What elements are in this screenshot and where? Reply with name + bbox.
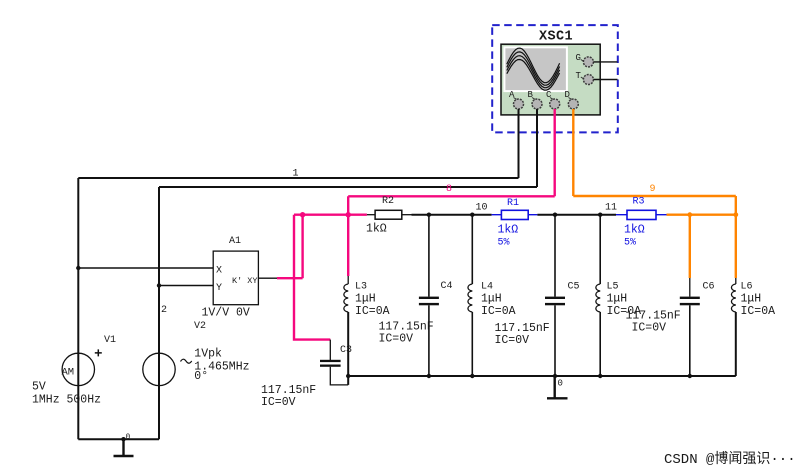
oscilloscope terminal T stub wire <box>593 79 617 81</box>
source V1 <box>62 353 94 385</box>
wire source bottom horizontal <box>78 438 159 440</box>
wire node9 orange horizontal top <box>573 195 736 197</box>
oscilloscope terminal C <box>550 99 560 109</box>
svg-text:11: 11 <box>605 203 617 214</box>
oscilloscope waveform trace 1 <box>507 48 560 83</box>
svg-text:X: X <box>216 265 222 276</box>
svg-text:C6: C6 <box>703 282 715 293</box>
inductor L4 top lead <box>471 215 473 284</box>
wire ground bus <box>348 375 736 377</box>
inductor L5 top lead <box>599 215 601 284</box>
wire net 1 horizontal to V1 <box>78 177 518 179</box>
resistor R1 <box>501 210 528 219</box>
capacitor C4 <box>419 297 439 299</box>
inductor L6 bottom lead <box>735 312 737 376</box>
junction node8 riser <box>300 212 305 217</box>
wire scope A vertical <box>518 109 520 178</box>
capacitor C6 <box>680 297 700 299</box>
wire scope B vertical <box>536 109 538 187</box>
svg-text:IC=0A: IC=0A <box>741 305 776 318</box>
svg-text:IC=0V: IC=0V <box>632 322 667 335</box>
capacitor C5 bottom lead <box>554 305 556 376</box>
junction node10 C4 <box>427 213 431 217</box>
svg-text:5%: 5% <box>498 238 510 249</box>
svg-text:R3: R3 <box>633 197 645 208</box>
svg-text:IC=0V: IC=0V <box>495 334 530 347</box>
inductor L4 <box>468 284 472 312</box>
junction bus C5 <box>553 374 557 378</box>
inductor L5 bottom lead <box>599 312 601 376</box>
svg-text:IC=0A: IC=0A <box>355 305 390 318</box>
junction node9 C6 <box>687 212 692 217</box>
capacitor C5 top lead <box>554 215 556 297</box>
oscilloscope waveform trace 3 <box>507 56 560 88</box>
svg-text:1: 1 <box>293 169 299 180</box>
svg-text:1kΩ: 1kΩ <box>498 223 519 236</box>
oscilloscope waveform trace 2 <box>507 52 560 85</box>
capacitor C3 <box>320 360 341 362</box>
svg-text:A: A <box>509 90 515 100</box>
resistor R3 right lead blue <box>656 214 667 216</box>
svg-text:C3: C3 <box>340 345 352 356</box>
inductor L5 <box>596 284 600 312</box>
resistor R1 left lead blue <box>492 214 502 216</box>
svg-text:1kΩ: 1kΩ <box>624 223 645 236</box>
wire Y branch <box>159 285 213 287</box>
svg-text:L5: L5 <box>607 282 619 293</box>
wire node9 orange C6 branch <box>689 215 691 278</box>
junction bus L3 <box>346 374 350 378</box>
junction node11 C5 <box>553 213 557 217</box>
junction V1-X <box>76 266 80 270</box>
svg-text:9: 9 <box>650 184 656 195</box>
oscilloscope terminal D <box>568 99 578 109</box>
resistor R2 <box>375 210 402 219</box>
svg-text:IC=0V: IC=0V <box>261 396 296 409</box>
svg-text:1Vpk: 1Vpk <box>194 348 222 361</box>
source V2 <box>143 353 175 385</box>
svg-text:V2: V2 <box>194 321 206 332</box>
oscilloscope waveform trace 4 <box>507 60 560 91</box>
resistor R1 right lead blue <box>528 214 537 216</box>
svg-text:1μH: 1μH <box>481 293 502 306</box>
svg-text:IC=0A: IC=0A <box>481 305 516 318</box>
capacitor C6 top lead <box>689 278 691 297</box>
resistor R2 right lead <box>402 214 412 216</box>
svg-text:R2: R2 <box>382 196 394 207</box>
inductor L6 top lead <box>735 278 737 284</box>
svg-text:1V/V 0V: 1V/V 0V <box>202 307 250 320</box>
svg-text:5V: 5V <box>32 381 46 394</box>
svg-text:2: 2 <box>161 305 167 316</box>
source V2 tilde <box>181 359 192 363</box>
svg-text:1μH: 1μH <box>355 293 376 306</box>
junction bus L4 <box>470 374 474 378</box>
svg-text:0°: 0° <box>194 370 208 383</box>
wire node8 magenta L3 branch <box>347 196 349 276</box>
oscilloscope terminal B <box>532 99 542 109</box>
resistor R3 <box>627 210 656 219</box>
ground symbol mid <box>547 376 568 398</box>
svg-text:G: G <box>576 53 581 63</box>
junction node10 L4 <box>470 213 474 217</box>
capacitor C4 top lead <box>428 215 430 297</box>
svg-text:T: T <box>576 71 582 81</box>
svg-text:A1: A1 <box>229 236 241 247</box>
wire node9 orange drop <box>735 196 737 278</box>
wire net 2 horizontal to V2 <box>159 186 537 188</box>
wire X branch <box>78 267 213 269</box>
svg-text:CSDN @博闻强识···: CSDN @博闻强识··· <box>664 450 796 468</box>
svg-text:AM: AM <box>62 367 75 379</box>
inductor L6 <box>731 284 735 312</box>
svg-text:D: D <box>565 90 570 100</box>
source V1 plus sign <box>95 349 102 356</box>
capacitor C3 top lead <box>329 340 331 360</box>
junction node8 L3 <box>346 212 351 217</box>
junction bus C6 <box>688 374 692 378</box>
wire node8 magenta riser <box>301 215 303 279</box>
oscilloscope terminal G stub wire <box>593 61 617 63</box>
wire node8 magenta output segment <box>277 277 303 279</box>
svg-text:1kΩ: 1kΩ <box>366 223 387 236</box>
capacitor C4 bottom lead <box>428 305 430 376</box>
wire scope C vertical magenta <box>554 109 556 196</box>
inductor L3 <box>344 284 348 312</box>
oscilloscope XSC1 dashed boundary <box>492 25 618 132</box>
junction V2-Y <box>157 283 161 287</box>
wire node11 main <box>537 214 616 216</box>
junction node9 L6 <box>733 212 738 217</box>
multiplier A1 box <box>213 251 258 305</box>
wire scope D vertical orange <box>572 109 574 196</box>
svg-text:1MHz 500Hz: 1MHz 500Hz <box>32 394 101 407</box>
svg-text:0: 0 <box>558 379 563 389</box>
oscilloscope terminal G <box>583 57 593 67</box>
svg-text:L3: L3 <box>355 282 367 293</box>
svg-text:1μH: 1μH <box>607 293 628 306</box>
svg-text:10: 10 <box>476 203 488 214</box>
multiplier A1 output lead <box>258 277 277 279</box>
svg-text:5%: 5% <box>624 238 636 249</box>
capacitor C3 bottom lead <box>330 367 348 385</box>
capacitor C5 <box>545 297 565 299</box>
svg-text:0: 0 <box>126 433 131 442</box>
svg-text:R1: R1 <box>507 198 519 209</box>
wire node8 magenta horizontal to scope C <box>348 195 555 197</box>
svg-text:1μH: 1μH <box>741 293 762 306</box>
junction bus L5 <box>598 374 602 378</box>
oscilloscope screen <box>504 47 567 91</box>
svg-text:K' XY: K' XY <box>232 276 258 286</box>
wire V1 vertical <box>77 178 79 439</box>
junction bus C4 <box>427 374 431 378</box>
inductor L4 bottom lead <box>471 312 473 376</box>
oscilloscope terminal A <box>514 99 524 109</box>
junction node11 L5 <box>598 213 602 217</box>
svg-text:8: 8 <box>446 184 452 195</box>
wire node10 main <box>412 214 492 216</box>
junction ground left <box>121 437 125 441</box>
wire node8 magenta horizontal at R2 <box>294 213 367 215</box>
inductor L3 top lead <box>347 276 349 284</box>
capacitor C6 bottom lead <box>689 305 691 376</box>
svg-text:L4: L4 <box>481 282 493 293</box>
wire node9 orange horizontal at R3 <box>667 213 736 215</box>
svg-text:IC=0V: IC=0V <box>379 333 414 346</box>
svg-text:Y: Y <box>216 283 222 294</box>
svg-text:XSC1: XSC1 <box>539 30 573 45</box>
wire node8 magenta drop to C3 <box>294 215 330 340</box>
resistor R2 left lead <box>367 214 375 216</box>
svg-text:L6: L6 <box>741 282 753 293</box>
svg-text:V1: V1 <box>104 335 116 346</box>
oscilloscope terminal T <box>583 75 593 85</box>
resistor R3 left lead blue <box>616 214 627 216</box>
oscilloscope terminal label ticks <box>514 60 584 100</box>
oscilloscope body <box>501 44 600 115</box>
ground symbol left <box>114 439 134 456</box>
svg-text:C4: C4 <box>441 281 453 292</box>
wire V2 vertical <box>158 187 160 439</box>
svg-text:B: B <box>528 90 534 100</box>
svg-text:C5: C5 <box>568 282 580 293</box>
inductor L3 bottom lead <box>347 312 349 385</box>
